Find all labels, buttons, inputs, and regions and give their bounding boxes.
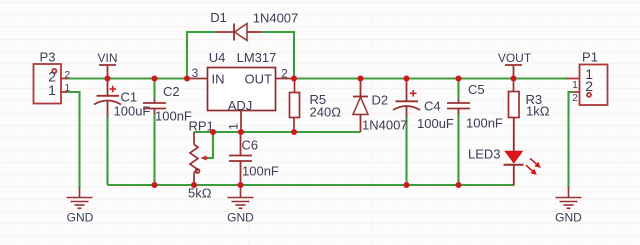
junction node D2 top — [358, 76, 364, 82]
svg-text:2: 2 — [65, 70, 71, 81]
svg-text:VIN: VIN — [97, 51, 117, 65]
junction node C5 bottom — [456, 182, 462, 188]
svg-text:3: 3 — [192, 66, 199, 80]
svg-text:2: 2 — [572, 93, 578, 104]
svg-text:LED3: LED3 — [468, 147, 501, 162]
svg-text:C1: C1 — [121, 90, 138, 105]
junction node R5 bottom — [291, 129, 297, 135]
svg-text:100uF: 100uF — [114, 104, 151, 119]
wire bottom rail — [108, 184, 515, 186]
ground left — [67, 187, 93, 208]
svg-text:100nF: 100nF — [242, 164, 279, 179]
C4 plus sign — [410, 90, 417, 97]
svg-text:1N4007: 1N4007 — [253, 11, 299, 26]
resistor R3 — [509, 92, 520, 118]
LED3 light arrows — [524, 156, 543, 177]
junction node wiper — [210, 129, 216, 135]
wire top rail OUT segment — [294, 77, 568, 79]
power flag VIN — [99, 65, 116, 79]
connector P3 — [34, 64, 68, 104]
wire C5 top lead — [457, 79, 459, 100]
junction node RP1 bottom — [191, 182, 197, 188]
svg-text:5kΩ: 5kΩ — [188, 186, 212, 201]
svg-text:OUT: OUT — [245, 72, 273, 87]
wire C5 drop — [457, 113, 459, 185]
junction node C2 top — [152, 76, 158, 82]
capacitor C4 — [393, 79, 420, 117]
svg-text:1kΩ: 1kΩ — [526, 104, 550, 119]
junction node C5 top — [456, 76, 462, 82]
svg-text:2: 2 — [585, 78, 593, 94]
junction node C4 bottom — [404, 182, 410, 188]
capacitor C1 — [94, 79, 121, 118]
junction node OUT — [291, 76, 297, 82]
wire C2 drop — [153, 113, 155, 185]
svg-text:P3: P3 — [40, 50, 56, 65]
wire D1 loop right — [262, 32, 294, 79]
wire D1 loop left — [187, 32, 215, 79]
svg-text:RP1: RP1 — [189, 119, 214, 134]
U4 pin 3 stub — [187, 78, 208, 80]
wire C4 drop — [405, 115, 407, 185]
LED LED3 — [504, 118, 524, 186]
connector P1 — [567, 65, 608, 106]
svg-text:1N4007: 1N4007 — [362, 118, 408, 133]
svg-text:D1: D1 — [210, 10, 227, 25]
junction node ADJ — [238, 129, 244, 135]
diode D2 — [353, 79, 368, 133]
wire RP1 wiper strap — [207, 132, 213, 158]
U4 pin 2 stub — [276, 78, 295, 80]
capacitor C6 — [229, 132, 252, 185]
wire P3 pin1 to GND — [66, 92, 80, 188]
junction node VOUT — [511, 76, 517, 82]
svg-text:IN: IN — [212, 72, 225, 87]
svg-text:GND: GND — [555, 211, 582, 225]
junction node D1 left — [184, 76, 190, 82]
U4 ADJ pin stub — [240, 111, 242, 133]
wire top rail VIN segment — [66, 77, 187, 79]
svg-text:GND: GND — [67, 211, 94, 225]
junction node C6 bottom — [238, 182, 244, 188]
wire ADJ rail — [194, 131, 361, 133]
svg-text:C5: C5 — [468, 82, 485, 97]
svg-text:2: 2 — [281, 67, 288, 81]
svg-text:C4: C4 — [424, 99, 441, 114]
svg-text:P1: P1 — [582, 50, 598, 65]
svg-text:100nF: 100nF — [466, 116, 503, 131]
svg-text:240Ω: 240Ω — [310, 105, 342, 120]
power flag VOUT — [505, 65, 522, 79]
resistor R5 — [290, 93, 300, 118]
junction node C4 top — [404, 76, 410, 82]
svg-text:VOUT: VOUT — [498, 51, 532, 65]
C1 plus sign — [110, 86, 117, 93]
R5 top stub — [294, 79, 296, 93]
potentiometer RP1 — [190, 132, 200, 185]
op-amp U4 LM317 body — [208, 68, 276, 111]
svg-text:1: 1 — [48, 82, 56, 98]
wire C2 top lead — [153, 79, 155, 100]
svg-text:100uF: 100uF — [417, 116, 454, 131]
R3 top stub — [513, 79, 515, 92]
R5 bottom stub — [293, 118, 295, 133]
wire P3 pin2 to VIN — [66, 77, 108, 79]
svg-text:U4: U4 — [209, 50, 226, 65]
svg-text:1: 1 — [572, 80, 578, 91]
RP1 wiper arrow — [201, 156, 214, 161]
capacitor C2 — [143, 99, 166, 114]
diode D1 — [215, 24, 262, 41]
wire C1 drop — [106, 116, 108, 185]
svg-text:GND: GND — [227, 211, 254, 225]
svg-text:1: 1 — [227, 123, 241, 130]
wire P1 pin2 to GND — [569, 92, 574, 188]
svg-text:ADJ: ADJ — [228, 98, 253, 113]
ground right — [556, 187, 582, 208]
svg-text:LM317: LM317 — [237, 50, 277, 65]
svg-text:D2: D2 — [372, 93, 389, 108]
svg-text:100nF: 100nF — [155, 109, 192, 124]
svg-text:C2: C2 — [163, 84, 180, 99]
svg-text:C6: C6 — [242, 138, 259, 153]
ground middle — [228, 185, 254, 208]
junction node VIN — [105, 76, 111, 82]
svg-text:1: 1 — [65, 83, 71, 94]
junction node C2 bottom — [152, 182, 158, 188]
capacitor C5 — [447, 99, 470, 114]
